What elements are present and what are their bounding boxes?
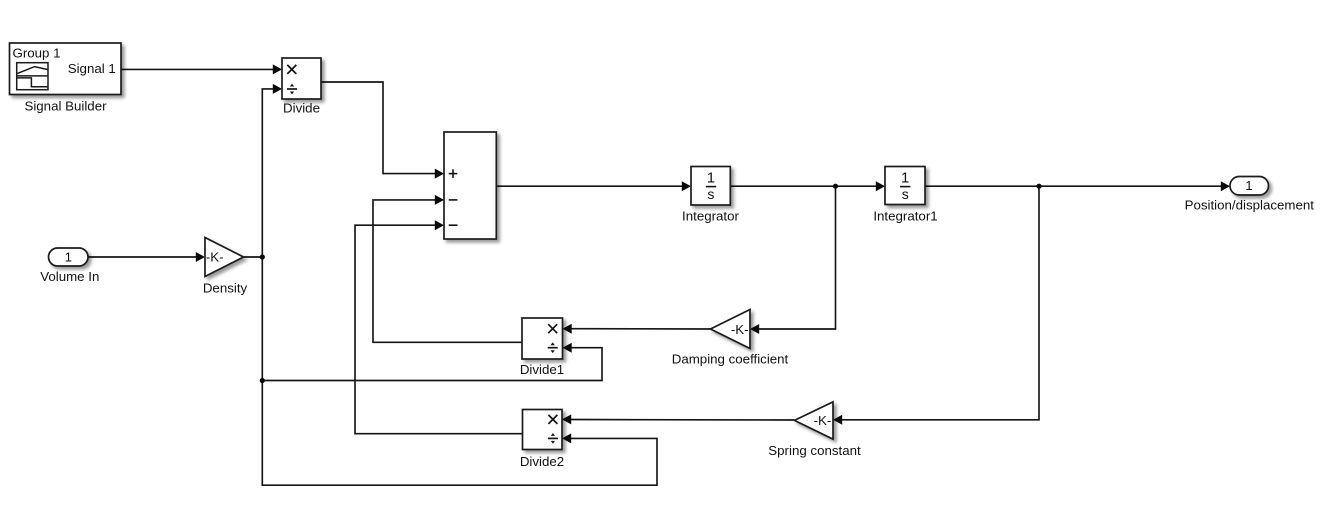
svg-text:-K-: -K- <box>206 250 224 265</box>
gain: Damping coefficient (mirrored) <box>711 310 751 349</box>
outport 1: Position/displacement <box>1230 177 1269 196</box>
wire: Divide1 output to Sum minus input 1 <box>373 195 522 342</box>
block: Integrator <box>691 167 730 206</box>
svg-text:Integrator1: Integrator1 <box>873 208 937 223</box>
divide symbol in Divide2 <box>548 433 558 444</box>
gain: Density <box>205 238 244 277</box>
wire: Damping gain output to Divide1 x input <box>563 324 711 334</box>
svg-text:Divide: Divide <box>283 101 320 116</box>
minus sign 2 <box>449 224 458 226</box>
svg-text:Density: Density <box>203 281 248 296</box>
label: Divide1 <box>520 362 564 377</box>
svg-text:1: 1 <box>1245 178 1252 193</box>
label: Density <box>203 281 248 296</box>
signal builder icon <box>17 63 48 90</box>
junction dot at y380 branch <box>260 378 265 383</box>
wire: Spring gain output to Divide2 x input <box>562 414 795 424</box>
svg-text:1: 1 <box>707 170 715 187</box>
block: Divide1 (mirrored) <box>522 318 563 359</box>
label: Divide2 <box>520 454 564 469</box>
svg-text:Volume In: Volume In <box>40 269 99 284</box>
junction dot at Density output <box>260 254 265 259</box>
junction dot after Integrator <box>833 184 838 189</box>
wire: Volume In to Density gain <box>88 252 205 262</box>
svg-text:-K-: -K- <box>731 322 749 337</box>
label: Spring constant <box>768 443 861 458</box>
svg-text:Divide1: Divide1 <box>520 362 564 377</box>
label: Damping coefficient <box>672 351 789 366</box>
wire: Integrator1 output to Out port <box>925 181 1230 191</box>
plus sign <box>449 169 458 178</box>
svg-text:Signal 1: Signal 1 <box>68 61 116 76</box>
label: Integrator1 <box>873 208 937 223</box>
svg-text:s: s <box>902 186 909 202</box>
multiply symbol in Divide <box>287 65 296 74</box>
wire: Integrator output to Integrator1 <box>730 181 885 191</box>
wire: vertical net up to Divide divide-input <box>262 84 282 257</box>
wire: Signal Builder output to Divide x input <box>121 64 282 74</box>
inport 1: Volume In <box>49 248 89 266</box>
junction dot after Integrator1 <box>1036 184 1041 189</box>
svg-text:Group 1: Group 1 <box>13 46 61 61</box>
multiply symbol in Divide2 <box>548 415 557 424</box>
minus sign 1 <box>449 199 458 201</box>
block: Signal Builder <box>10 43 122 95</box>
multiply symbol in Divide1 <box>548 324 557 333</box>
svg-text:Spring constant: Spring constant <box>768 443 861 458</box>
svg-text:Signal Builder: Signal Builder <box>24 98 107 113</box>
svg-text:Divide2: Divide2 <box>520 454 564 469</box>
block: Sum <box>444 132 496 239</box>
block: Divide <box>282 58 321 99</box>
svg-text:-K-: -K- <box>814 413 832 428</box>
svg-text:s: s <box>707 186 714 202</box>
svg-text:Damping coefficient: Damping coefficient <box>672 351 789 366</box>
wire: branch down to Damping coefficient gain <box>750 186 836 334</box>
wire: Density output to junction <box>244 256 263 258</box>
gain: Spring constant (mirrored) <box>795 402 834 439</box>
label: Position/displacement <box>1185 198 1315 213</box>
wire: branch down to Spring constant gain <box>833 186 1039 425</box>
label: Signal Builder <box>24 98 107 113</box>
divide symbol in Divide <box>287 84 297 95</box>
wire: vertical net down, bottom loop to Divide2 divide-input <box>262 257 657 485</box>
block: Integrator1 <box>885 167 925 205</box>
svg-text:Integrator: Integrator <box>682 208 739 223</box>
svg-text:Position/displacement: Position/displacement <box>1185 198 1315 213</box>
block: Divide2 (mirrored) <box>523 410 563 450</box>
wire: Sum output to Integrator <box>496 181 691 191</box>
wire: Divide output to Sum plus input <box>321 82 444 179</box>
label: Integrator <box>682 208 739 223</box>
wire: Divide2 output to Sum minus input 2 <box>355 220 523 434</box>
svg-text:1: 1 <box>65 249 72 264</box>
label: Divide <box>283 101 320 116</box>
label: Volume In <box>40 269 99 284</box>
wire: branch at y380 to Divide1 divide-input <box>262 343 602 381</box>
divide symbol in Divide1 <box>548 342 558 353</box>
svg-text:1: 1 <box>901 170 909 187</box>
